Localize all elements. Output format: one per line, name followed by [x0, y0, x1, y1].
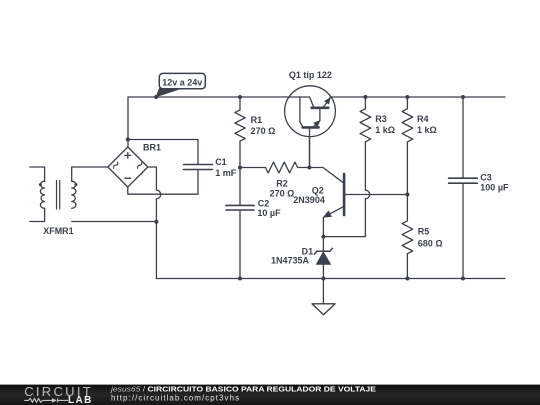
wire top rail left segment (bridge + to Q1 collector): [128, 96, 310, 98]
logo CIRCUIT LAB: [24, 384, 93, 405]
svg-text:2N3904: 2N3904: [293, 195, 325, 205]
svg-text:LAB: LAB: [68, 395, 93, 405]
wire secondary bottom to AC2 node: [72, 221, 157, 223]
resistor R2: [240, 162, 309, 173]
svg-text:270 Ω: 270 Ω: [270, 189, 295, 199]
wire top rail right segment (Q1 emitter to output): [330, 96, 505, 98]
svg-text:C3: C3: [480, 173, 492, 183]
transformer XFMR1: [30, 167, 78, 222]
resistor R4: [402, 97, 413, 195]
svg-text:1 kΩ: 1 kΩ: [417, 125, 437, 135]
resistor R3: [323, 97, 370, 237]
wire C1 top branch: [128, 140, 198, 164]
diode D1 (1N4735A zener): [314, 237, 332, 279]
svg-text:100 µF: 100 µF: [480, 182, 509, 192]
node flag 12v a 24v: [156, 73, 205, 96]
svg-text:1N4735A: 1N4735A: [271, 255, 310, 265]
svg-text:1 mF: 1 mF: [215, 168, 237, 178]
svg-text:R4: R4: [417, 114, 429, 124]
svg-text:R2: R2: [276, 179, 288, 189]
svg-text:10 µF: 10 µF: [257, 208, 281, 218]
transistor Q1 (TIP122 darlington): [285, 86, 336, 168]
transistor Q2 (2N3904): [309, 168, 407, 237]
wire bridge AC2 down with hop over C1 bottom wire: [148, 167, 161, 279]
svg-text:jesus65 / CIRCIRCUITO BASICO P: jesus65 / CIRCIRCUITO BASICO PARA REGULA…: [110, 384, 376, 393]
svg-text:Q1 tip 122: Q1 tip 122: [289, 70, 332, 80]
capacitor C3: [449, 97, 478, 279]
svg-text:BR1: BR1: [143, 143, 161, 153]
capacitor C2: [226, 168, 254, 279]
wire secondary top to bridge AC1: [72, 167, 108, 181]
svg-text:R1: R1: [251, 115, 263, 125]
svg-text:http://circuitlab.com/cpt3vhs: http://circuitlab.com/cpt3vhs: [111, 394, 240, 403]
svg-text:R3: R3: [375, 114, 387, 124]
svg-text:R5: R5: [418, 226, 430, 236]
svg-text:C1: C1: [215, 157, 227, 167]
resistor R1: [235, 97, 245, 168]
wire Q1 base to R2/Q2 node: [309, 137, 311, 168]
wire bottom rail: [156, 278, 505, 280]
capacitor C1: [184, 165, 213, 170]
svg-text:12v a 24v: 12v a 24v: [162, 77, 202, 87]
wire input drop from rail to bridge top: [127, 97, 129, 147]
svg-text:680 Ω: 680 Ω: [418, 238, 443, 248]
svg-text:Q2: Q2: [312, 186, 324, 196]
svg-text:C2: C2: [258, 199, 270, 209]
svg-text:XFMR1: XFMR1: [43, 226, 74, 236]
svg-text:1 kΩ: 1 kΩ: [375, 125, 395, 135]
ground: [312, 279, 335, 315]
resistor R5: [402, 195, 413, 279]
bridge rectifier BR1: [108, 147, 148, 187]
wire C1 bottom branch to bridge minus: [128, 170, 198, 194]
svg-text:270 Ω: 270 Ω: [251, 126, 276, 136]
